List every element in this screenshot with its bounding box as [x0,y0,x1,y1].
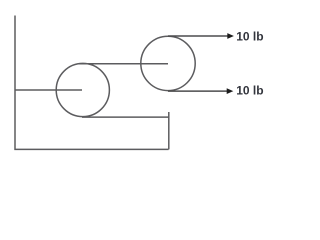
svg-text:10 lb: 10 lb [236,29,263,43]
svg-text:10 lb: 10 lb [236,83,263,97]
